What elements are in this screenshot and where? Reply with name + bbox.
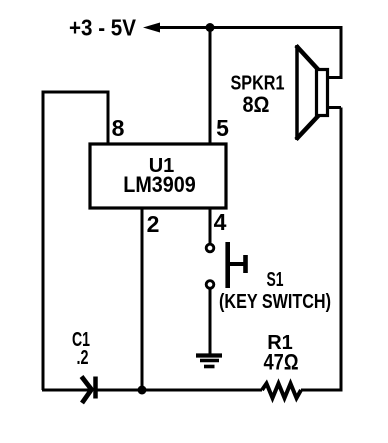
svg-text:(KEY SWITCH): (KEY SWITCH) [219, 291, 331, 313]
svg-text:47Ω: 47Ω [264, 350, 299, 375]
switch S1 terminal circle top [206, 244, 214, 252]
svg-text:2: 2 [147, 211, 160, 237]
ground symbol [196, 356, 222, 367]
wire bottom rail resistor to right corner [301, 389, 343, 392]
wire left branch: up from left rail, across, down to pin 8 [43, 92, 108, 390]
switch S1 actuator bar [225, 242, 230, 288]
svg-text:4: 4 [214, 209, 227, 235]
node junction dot bottom (pin2 to rail) [138, 386, 147, 395]
wire pin4 drop to switch [209, 208, 212, 243]
svg-text:LM3909: LM3909 [123, 172, 196, 197]
wire pin5 drop [209, 28, 212, 146]
wire right side down to speaker top terminal [327, 26, 343, 78]
svg-text:8: 8 [112, 115, 125, 141]
arrow head on supply wire [143, 23, 160, 33]
wire top rail [157, 26, 341, 29]
svg-text:5: 5 [216, 115, 229, 141]
node junction dot top (pin5 tap) [206, 23, 215, 32]
svg-text:+3 - 5V: +3 - 5V [69, 15, 137, 41]
wire pin2 drop to bottom rail [141, 208, 144, 390]
wire bottom rail capacitor to resistor [97, 389, 262, 392]
wire switch to ground [209, 288, 212, 354]
switch S1 button cap [243, 255, 248, 273]
svg-text:S1: S1 [267, 269, 284, 291]
op-amp U1 LM3909 IC body [90, 144, 226, 208]
svg-text:.2: .2 [77, 347, 89, 369]
speaker SPKR1 symbol [296, 45, 328, 140]
wire bottom rail left segment to capacitor [42, 389, 89, 392]
switch S1 plunger stem [230, 262, 244, 266]
switch S1 terminal circle bottom [206, 281, 214, 289]
capacitor C1 curved plate [82, 377, 92, 404]
capacitor C1 straight plate [93, 377, 98, 399]
wire speaker bottom terminal down right side [327, 108, 341, 392]
svg-text:8Ω: 8Ω [243, 92, 270, 117]
resistor R1 zigzag [262, 384, 301, 399]
